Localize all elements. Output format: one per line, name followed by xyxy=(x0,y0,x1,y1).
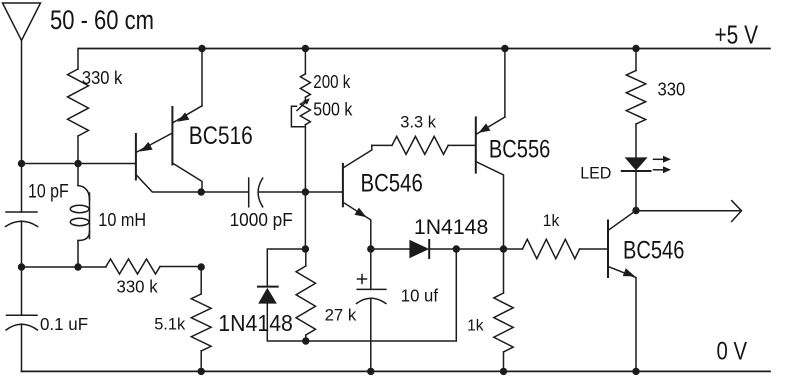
label 5.1k xyxy=(154,316,186,334)
capacitor 10 pF xyxy=(6,212,38,227)
label BC546 (right) xyxy=(623,236,684,264)
wire: +5V top supply rail xyxy=(79,48,771,50)
wire: node B to vertical diode xyxy=(267,249,305,287)
label 330 k (bottom) xyxy=(117,276,158,296)
node: Q4 emitter on 0V rail xyxy=(632,368,639,375)
wire: node C to node D riser xyxy=(306,249,457,341)
wire: base node to BC546 base xyxy=(305,191,343,193)
svg-text:500 k: 500 k xyxy=(313,100,353,120)
svg-text:27 k: 27 k xyxy=(325,305,357,324)
wire: output line with arrow xyxy=(636,201,742,222)
node: 330 top on +5V rail xyxy=(632,45,639,52)
transistor Q1b emitter xyxy=(172,49,202,124)
transistor Q3 BC556: base bar xyxy=(475,117,477,172)
wire: antenna line mid segment xyxy=(21,221,23,315)
label 3.3 k xyxy=(400,114,436,132)
label 330 k (top left) xyxy=(82,67,123,88)
transistor Q3 emitter xyxy=(476,49,505,135)
LED emission arrow 1 xyxy=(654,156,672,163)
transistor Q4 BC546: base bar xyxy=(607,221,609,278)
label LED xyxy=(580,164,611,183)
svg-text:330 k: 330 k xyxy=(117,276,158,296)
resistor 5.1k xyxy=(191,267,211,371)
label +5 V xyxy=(715,20,759,50)
capacitor C 10 uf electrolytic: plus sign xyxy=(358,275,367,284)
resistor 1k (vertical) xyxy=(494,249,513,371)
node C junction xyxy=(302,337,309,344)
node: base node of BC546 xyxy=(302,188,309,195)
antenna length label 50 - 60 cm xyxy=(50,5,154,35)
wire: 0V bottom supply rail xyxy=(22,370,771,372)
wire: 1000pF to base node xyxy=(260,191,306,193)
label 200 k xyxy=(313,72,351,92)
svg-text:330: 330 xyxy=(658,79,686,100)
capacitor 1000 pF xyxy=(249,178,263,207)
resistor 200 k xyxy=(300,74,310,98)
transistor Q1b collector xyxy=(172,163,202,192)
transistor Q2 emitter xyxy=(343,202,371,249)
label 0 V xyxy=(717,338,748,366)
svg-text:0 V: 0 V xyxy=(717,338,748,366)
potentiometer 500 k xyxy=(291,98,310,127)
transistor Q4 emitter xyxy=(608,267,636,372)
svg-text:10 uf: 10 uf xyxy=(401,285,438,305)
svg-text:BC546: BC546 xyxy=(623,236,684,264)
label 1000 pF xyxy=(230,210,293,230)
label 1k (vertical) xyxy=(467,318,484,335)
svg-text:LED: LED xyxy=(580,164,611,183)
resistor 1k (horizontal) xyxy=(504,239,609,258)
node F junction xyxy=(500,245,507,252)
transistor Q3 collector xyxy=(476,162,504,250)
LED xyxy=(622,157,651,210)
wire: base row to BC516 xyxy=(22,163,136,165)
inductor 10 mH xyxy=(70,164,89,268)
wire: row y=267 left xyxy=(22,266,107,268)
node: antenna / base-row junction xyxy=(18,160,25,167)
svg-text:10 mH: 10 mH xyxy=(98,210,146,230)
wire: antenna lead down xyxy=(21,41,23,213)
svg-text:1N4148: 1N4148 xyxy=(414,215,488,239)
label 330 xyxy=(658,79,686,100)
transistor Q1a collector xyxy=(136,175,201,193)
svg-text:200 k: 200 k xyxy=(313,72,351,92)
svg-text:50 - 60 cm: 50 - 60 cm xyxy=(50,5,154,35)
node: 10uf bottom on 0V rail xyxy=(367,368,374,375)
svg-text:BC546: BC546 xyxy=(361,170,423,198)
svg-text:0.1 uF: 0.1 uF xyxy=(40,314,88,334)
transistor Q1a BC516 first PNP: base bar xyxy=(135,134,137,180)
diode D1 1N4148 (vertical) xyxy=(258,287,278,304)
svg-text:1000 pF: 1000 pF xyxy=(230,210,293,230)
diode D2 1N4148 (horizontal) xyxy=(409,240,429,258)
label BC556 xyxy=(489,135,550,163)
resistor 27 k xyxy=(296,249,315,341)
transistor Q2 BC546: base bar xyxy=(342,164,344,206)
node: pot chain on +5V rail xyxy=(302,45,309,52)
transistor Q1a emitter (to Q1b base) xyxy=(136,133,173,153)
svg-text:+5 V: +5 V xyxy=(715,20,759,50)
antenna xyxy=(3,3,41,41)
node D junction xyxy=(453,245,460,252)
label 1N4148 (left) xyxy=(218,310,293,336)
svg-text:1k: 1k xyxy=(467,318,484,335)
svg-text:3.3 k: 3.3 k xyxy=(400,114,436,132)
svg-text:BC516: BC516 xyxy=(189,122,253,150)
capacitor 0.1 uF xyxy=(6,315,38,330)
node: BC556 emitter on +5V rail xyxy=(501,45,508,52)
wire: antenna line to 0V rail xyxy=(21,324,23,371)
svg-text:BC556: BC556 xyxy=(489,135,550,163)
wire: 200k to 500k xyxy=(304,97,306,101)
wire: vertical diode to node C xyxy=(267,303,306,341)
label 0.1 uF xyxy=(40,314,88,334)
node: 1k bottom on 0V rail xyxy=(500,368,507,375)
transistor Q1b BC516 second PNP: base bar xyxy=(171,107,173,165)
capacitor C 10 uf electrolytic xyxy=(357,249,386,371)
label BC516 xyxy=(189,122,253,150)
transistor Q4 collector xyxy=(608,211,636,231)
label 1k (horizontal) xyxy=(543,211,560,230)
wire: pot to base node xyxy=(304,125,306,192)
node: BC516 collectors junction xyxy=(198,188,205,195)
label 27 k xyxy=(325,305,357,324)
wire: +5V rail to 200k xyxy=(304,49,306,74)
node: 330k bottom / base row xyxy=(74,160,81,167)
wire: collector node to 1000pF xyxy=(201,191,249,193)
label 10 pF xyxy=(28,182,69,203)
node: 5.1k bottom on 0V rail xyxy=(198,368,205,375)
node: output node xyxy=(632,207,639,214)
resistor 3.3 k xyxy=(372,136,475,154)
LED emission arrow 2 xyxy=(654,166,672,173)
node: BC516 emitter on +5V rail xyxy=(198,45,205,52)
label 10 mH xyxy=(98,210,146,230)
svg-text:1k: 1k xyxy=(543,211,560,230)
wire: base node down to node B xyxy=(304,192,306,249)
node: 330k / 5.1k junction xyxy=(198,263,205,270)
node: inductor bottom xyxy=(74,263,81,270)
resistor 330 xyxy=(626,49,645,158)
node: antenna / 267-row junction xyxy=(18,263,25,270)
label 1N4148 (top) xyxy=(414,215,488,239)
node E junction xyxy=(367,245,374,252)
wire: diode D2 to node F xyxy=(429,248,503,250)
resistor 330 k (horizontal) xyxy=(106,259,201,274)
svg-text:1N4148: 1N4148 xyxy=(218,310,293,336)
label 500 k xyxy=(313,100,353,120)
resistor 330 k (top left) xyxy=(68,49,89,164)
svg-text:5.1k: 5.1k xyxy=(154,316,186,334)
node B junction xyxy=(302,245,309,252)
label BC546 (middle) xyxy=(361,170,423,198)
label 10 uf xyxy=(401,285,438,305)
wire: node E to diode D2 xyxy=(371,248,410,250)
svg-text:330 k: 330 k xyxy=(82,67,123,88)
transistor Q2 collector xyxy=(343,145,372,168)
svg-text:10 pF: 10 pF xyxy=(28,182,69,203)
